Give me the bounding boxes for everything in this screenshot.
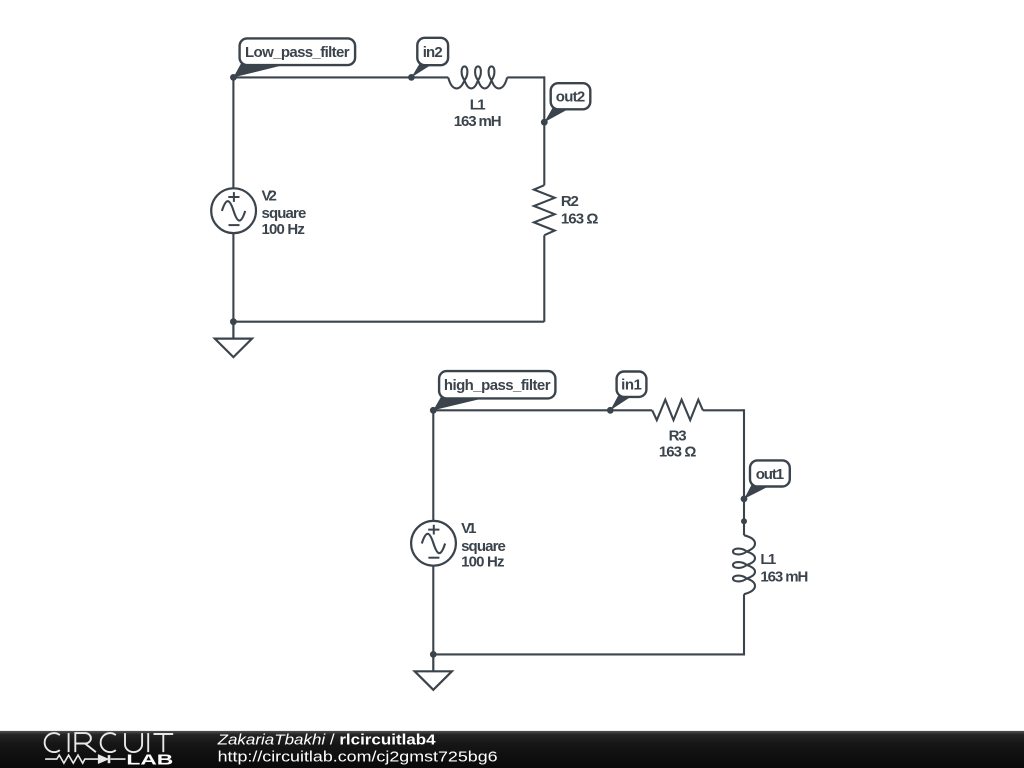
svg-text:163 Ω: 163 Ω	[659, 443, 697, 460]
label L1 value (circuit 2)	[760, 551, 808, 585]
flag out1	[744, 460, 790, 499]
svg-text:V2: V2	[262, 187, 277, 204]
svg-text:L1: L1	[470, 97, 486, 114]
svg-text:V1: V1	[461, 520, 476, 537]
ground symbol (circuit 1)	[215, 322, 252, 357]
wire corner down to R2 (net out2)	[543, 76, 545, 185]
label V2 value	[262, 187, 307, 238]
ground symbol (circuit 2)	[415, 654, 452, 689]
svg-text:163 Ω: 163 Ω	[561, 210, 599, 227]
wire V1 bottom lead	[432, 566, 434, 655]
svg-text:in1: in1	[621, 376, 642, 393]
label L1 value (circuit 1)	[454, 97, 502, 130]
flag Low_pass_filter	[233, 38, 355, 77]
flag in2	[411, 38, 448, 78]
flag in1	[610, 372, 646, 411]
wire V2 bottom lead	[232, 233, 234, 322]
wire V2 top to inductor L1 (net Low_pass_filter / in2)	[233, 76, 448, 78]
node dot out1	[741, 496, 748, 503]
node dot Low_pass_filter	[230, 74, 237, 81]
wire L1 bottom to bottom rail	[433, 594, 744, 654]
node dot in1	[607, 407, 614, 414]
svg-text:out2: out2	[556, 89, 585, 106]
svg-text:R3: R3	[669, 428, 687, 445]
wire R3 to top-right corner	[703, 409, 744, 411]
svg-text:square: square	[262, 205, 307, 222]
logo resistor-diode squiggle	[45, 755, 125, 763]
svg-text:163 mH: 163 mH	[760, 569, 808, 586]
inductor L1 coil (circuit 2)	[733, 535, 755, 594]
node dot out2	[541, 119, 548, 126]
resistor R3	[652, 400, 703, 420]
label R3 value	[659, 428, 697, 461]
footer bar	[0, 731, 1024, 768]
wire V1 top lead	[432, 409, 434, 521]
node dot ground junction (circuit 1)	[230, 318, 237, 325]
svg-text:http://circuitlab.com/cj2gmst7: http://circuitlab.com/cj2gmst725bg6	[218, 749, 498, 766]
svg-text:Low_pass_filter: Low_pass_filter	[245, 44, 350, 61]
wire bottom rail (ground net, circuit 1)	[233, 321, 544, 323]
svg-text:LAB: LAB	[126, 753, 173, 768]
flag high_pass_filter	[433, 371, 555, 410]
wire V2 top lead	[232, 76, 234, 188]
wire L1 to top-right corner	[507, 76, 544, 78]
node dot L1 top junction (circuit 2)	[741, 518, 747, 524]
svg-text:high_pass_filter: high_pass_filter	[444, 377, 551, 394]
resistor R2	[534, 185, 555, 235]
svg-text:square: square	[461, 538, 506, 555]
svg-text:out1: out1	[756, 466, 784, 483]
node dot high_pass_filter	[430, 407, 437, 414]
svg-text:100 Hz: 100 Hz	[262, 221, 305, 238]
label R2 value	[561, 193, 599, 227]
svg-text:163 mH: 163 mH	[454, 113, 502, 130]
node dot in2	[408, 74, 415, 81]
inductor L1 coil (circuit 1)	[448, 66, 507, 88]
wire corner down to L1 (net out1)	[743, 409, 745, 535]
voltage source V2	[211, 188, 256, 233]
wire R2 bottom to bottom rail	[543, 235, 545, 322]
node dot ground junction (circuit 2)	[430, 651, 437, 658]
svg-text:L1: L1	[760, 551, 776, 568]
svg-text:ZakariaTbakhi / rlcircuitlab4: ZakariaTbakhi / rlcircuitlab4	[216, 732, 436, 749]
svg-text:100 Hz: 100 Hz	[461, 554, 504, 571]
flag out2	[544, 83, 590, 122]
wire V1 top to R3 (net high_pass_filter / in1)	[433, 409, 652, 411]
svg-text:R2: R2	[561, 193, 579, 210]
label V1 value	[461, 520, 506, 571]
voltage source V1	[411, 521, 456, 566]
CircuitLab logo wordmark CIRCUIT	[45, 733, 174, 752]
svg-text:in2: in2	[423, 44, 443, 61]
